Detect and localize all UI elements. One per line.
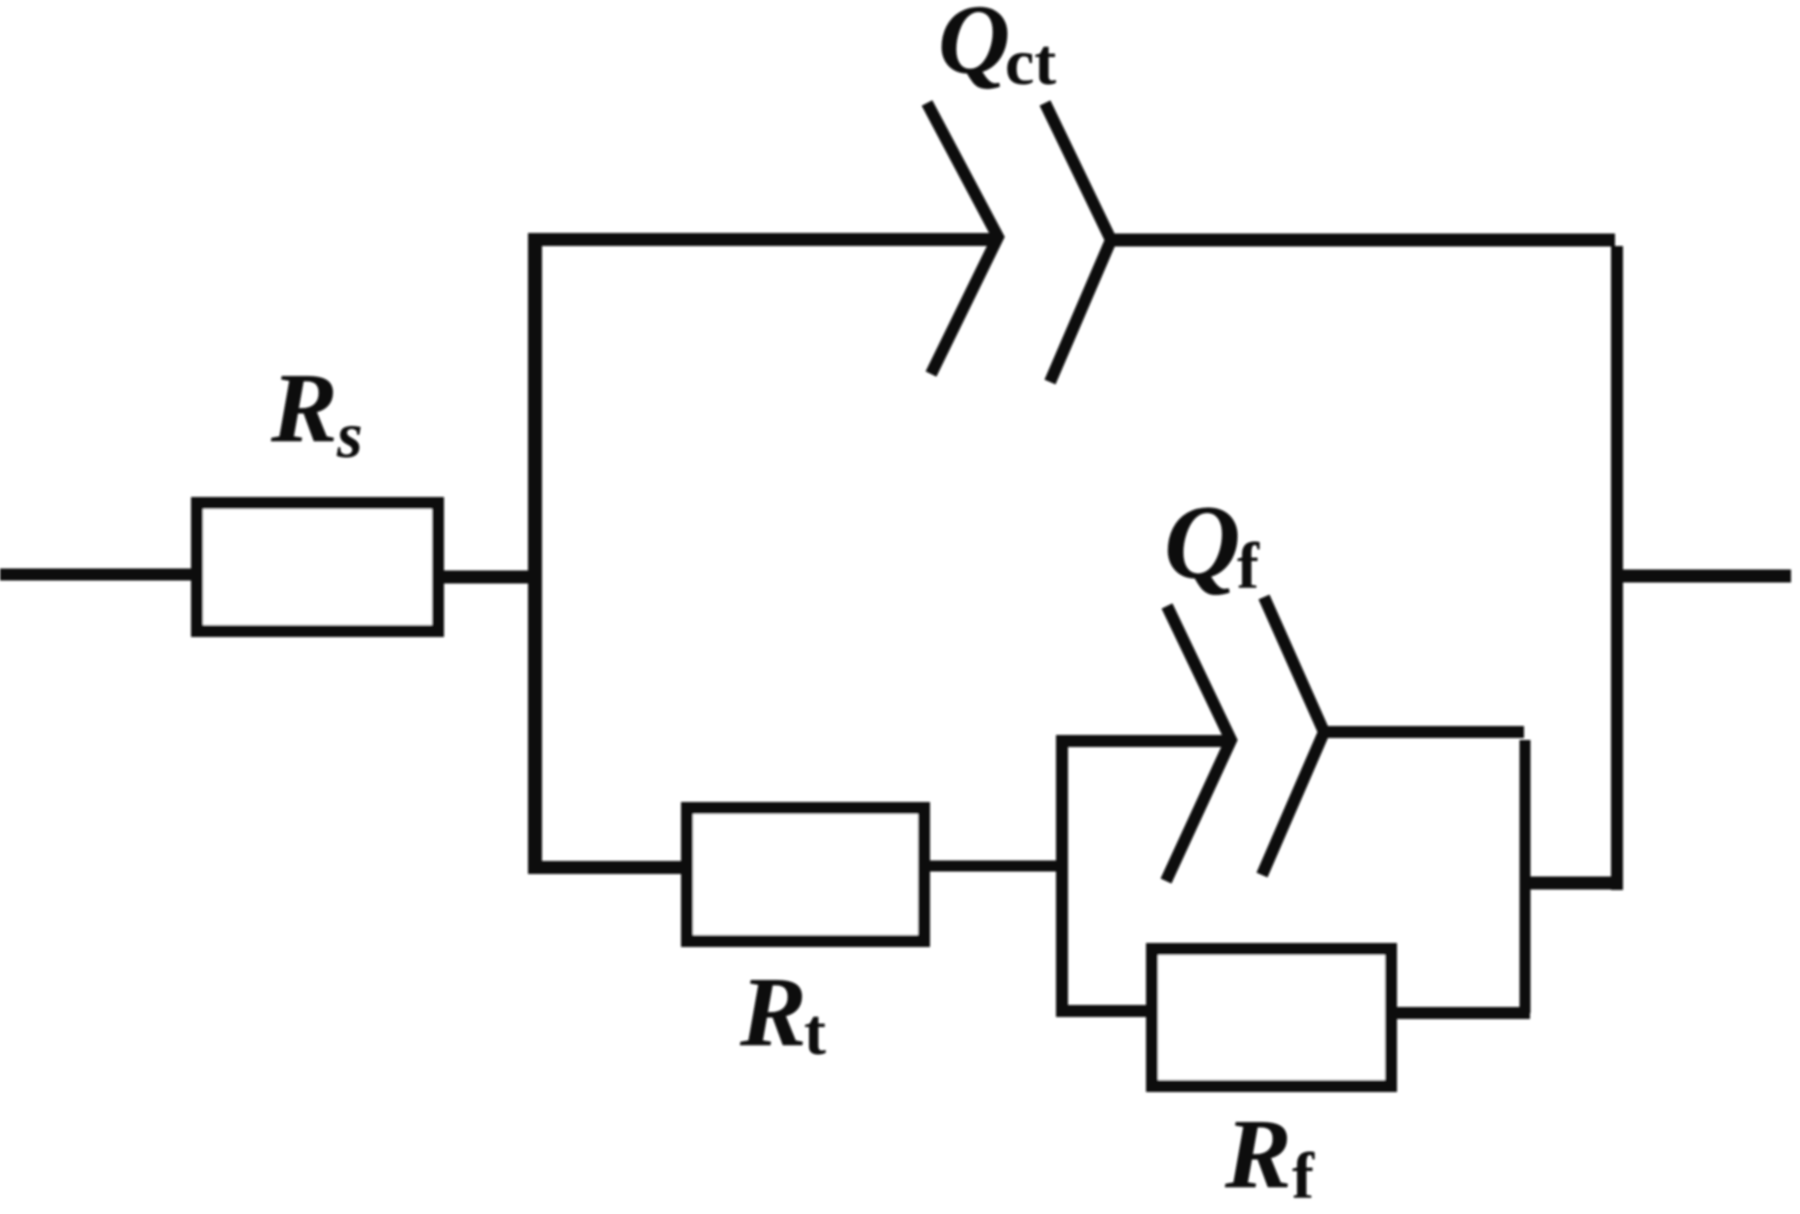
wire input left xyxy=(0,569,199,581)
svg-text:s: s xyxy=(336,399,363,472)
resistor Rt xyxy=(687,808,924,941)
wire inner top right xyxy=(1327,726,1524,738)
CPE Qct right chevron xyxy=(1045,103,1111,382)
wire Rt to inner cell xyxy=(924,861,1062,872)
wire inner right vertical xyxy=(1520,740,1531,1013)
svg-text:R: R xyxy=(270,352,338,463)
svg-text:f: f xyxy=(1292,1140,1315,1213)
svg-text:f: f xyxy=(1237,530,1260,603)
wire Rs to junction xyxy=(438,571,542,584)
label Rt xyxy=(739,956,826,1069)
CPE Qf right chevron xyxy=(1262,597,1324,875)
wire inner bottom right xyxy=(1391,1007,1530,1019)
label Rf xyxy=(1224,1098,1315,1213)
wire top branch left xyxy=(528,233,996,246)
svg-text:ct: ct xyxy=(1005,26,1056,99)
CPE Qct left chevron xyxy=(927,103,998,374)
svg-text:t: t xyxy=(804,996,826,1069)
label Qct xyxy=(938,0,1056,99)
wire inner left vertical xyxy=(1056,741,1068,1011)
wire right vertical xyxy=(1611,246,1623,890)
wire inner top left xyxy=(1056,735,1231,747)
wire top branch right xyxy=(1114,234,1615,247)
label Rs xyxy=(270,352,363,472)
svg-text:R: R xyxy=(1224,1098,1292,1209)
wire inner to outer right vertical xyxy=(1520,877,1623,890)
svg-text:Q: Q xyxy=(938,0,1010,95)
svg-text:Q: Q xyxy=(1164,484,1241,601)
svg-text:R: R xyxy=(739,956,807,1067)
label Qf xyxy=(1164,484,1260,603)
wire left vertical xyxy=(528,240,542,868)
resistor Rs xyxy=(197,503,438,631)
resistor Rf xyxy=(1152,949,1391,1086)
wire output right xyxy=(1611,570,1791,583)
wire inner bottom left xyxy=(1056,1005,1152,1017)
wire bottom branch left xyxy=(528,861,687,874)
CPE Qf left chevron xyxy=(1166,606,1231,881)
